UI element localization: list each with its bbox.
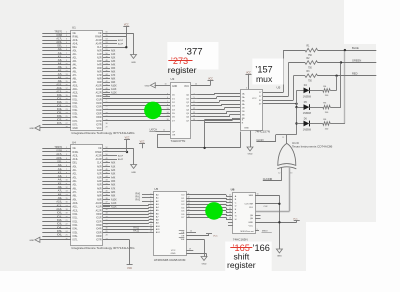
- svg-text:A6R: A6R: [97, 71, 102, 74]
- svg-text:10: 10: [150, 218, 152, 220]
- svg-text:12: 12: [229, 198, 231, 200]
- svg-text:A7L: A7L: [73, 74, 78, 77]
- svg-text:A8K: A8K: [111, 191, 116, 194]
- svg-text:9: 9: [193, 105, 194, 107]
- svg-text:GND: GND: [244, 128, 249, 130]
- svg-text:20: 20: [195, 83, 197, 85]
- svg-text:A9K: A9K: [111, 195, 116, 198]
- svg-text:IO5L: IO5L: [73, 114, 79, 116]
- svg-text:A12L: A12L: [73, 209, 79, 212]
- svg-text:U5: U5: [277, 86, 281, 90]
- svg-text:13: 13: [65, 191, 67, 193]
- svg-text:CE: CE: [73, 33, 77, 35]
- svg-text:A14R: A14R: [96, 158, 102, 161]
- svg-text:19: 19: [65, 95, 67, 97]
- svg-text:A12L: A12L: [56, 208, 62, 211]
- svg-text:11: 11: [66, 67, 68, 69]
- svg-text:A13R: A13R: [96, 154, 102, 157]
- svg-text:IO7R: IO7R: [96, 240, 102, 242]
- svg-text:24: 24: [65, 112, 67, 114]
- svg-text:17: 17: [166, 115, 168, 117]
- svg-text:8: 8: [150, 212, 151, 214]
- svg-text:14: 14: [65, 77, 67, 79]
- svg-text:GND: GND: [29, 128, 34, 130]
- svg-text:25: 25: [65, 235, 67, 237]
- svg-text:OE: OE: [172, 134, 176, 136]
- svg-text:A11K: A11K: [111, 88, 117, 91]
- svg-text:4: 4: [246, 87, 247, 89]
- svg-text:A2K: A2K: [111, 169, 116, 172]
- svg-text:VCC: VCC: [184, 86, 189, 88]
- svg-text:A5K: A5K: [111, 67, 116, 70]
- svg-text:16: 16: [193, 115, 195, 117]
- svg-text:A14L: A14L: [73, 43, 79, 46]
- svg-text:VCC: VCC: [125, 137, 130, 139]
- svg-text:A6R: A6R: [97, 187, 102, 190]
- svg-text:MISO: MISO: [262, 230, 268, 232]
- svg-text:GND: GND: [171, 253, 176, 255]
- svg-text:A10R: A10R: [96, 202, 102, 205]
- svg-text:A15P: A15P: [118, 39, 124, 42]
- svg-text:A7R: A7R: [97, 74, 102, 77]
- svg-text:2: 2: [193, 94, 194, 96]
- svg-text:IOSB: IOSB: [56, 150, 62, 153]
- svg-text:A2L: A2L: [73, 57, 78, 60]
- svg-text:R/WR: R/WR: [95, 152, 102, 154]
- svg-text:A7K: A7K: [111, 187, 116, 190]
- svg-text:RA1: RA1: [136, 195, 141, 198]
- svg-text:9: 9: [66, 60, 67, 62]
- svg-text:A5R: A5R: [97, 67, 102, 70]
- svg-text:CLK: CLK: [264, 206, 269, 208]
- svg-text:RA11: RA11: [133, 226, 139, 229]
- svg-text:IO3R: IO3R: [96, 225, 102, 227]
- svg-text:A5K: A5K: [111, 180, 116, 183]
- svg-text:A10L: A10L: [56, 83, 62, 86]
- svg-text:25: 25: [65, 116, 67, 118]
- svg-text:OE: OE: [181, 235, 185, 237]
- svg-text:IO4R: IO4R: [96, 229, 102, 231]
- svg-text:6: 6: [193, 101, 194, 103]
- svg-text:A11R: A11R: [96, 88, 102, 91]
- svg-text:CE: CE: [73, 148, 77, 150]
- svg-text:13: 13: [150, 228, 152, 230]
- svg-text:Texas Instruments CD74AC86: Texas Instruments CD74AC86: [292, 145, 333, 149]
- svg-text:15: 15: [65, 198, 67, 200]
- svg-text:GND: GND: [202, 264, 207, 266]
- svg-text:VCC: VCC: [252, 98, 257, 100]
- svg-text:A7K: A7K: [111, 74, 116, 77]
- svg-text:A16L: A16L: [56, 157, 62, 160]
- svg-text:A4L: A4L: [58, 179, 63, 182]
- svg-text:A8L: A8L: [58, 193, 63, 196]
- svg-text:8: 8: [66, 172, 67, 174]
- svg-text:A10K: A10K: [111, 85, 117, 88]
- svg-text:VCC: VCC: [213, 236, 218, 238]
- svg-text:A10K: A10K: [111, 198, 117, 201]
- svg-text:DEL: DEL: [73, 47, 78, 49]
- svg-text:R/WL: R/WL: [73, 37, 80, 39]
- svg-text:A2L: A2L: [58, 171, 63, 174]
- svg-text:IO6L: IO6L: [73, 117, 79, 119]
- svg-text:IO0L: IO0L: [73, 214, 79, 216]
- svg-text:A2K: A2K: [111, 57, 116, 60]
- svg-text:GND: GND: [248, 154, 253, 156]
- svg-text:29: 29: [105, 127, 107, 129]
- svg-text:A3L: A3L: [73, 176, 78, 179]
- svg-text:5: 5: [193, 97, 194, 99]
- svg-text:QH: QH: [250, 218, 254, 220]
- svg-text:IO0R: IO0R: [96, 96, 102, 98]
- svg-text:A5R: A5R: [97, 184, 102, 187]
- svg-text:1: 1: [66, 32, 67, 34]
- svg-text:A5L: A5L: [58, 182, 63, 185]
- svg-text:VCC: VCC: [140, 141, 145, 143]
- svg-text:IO1L: IO1L: [73, 100, 79, 102]
- svg-text:12: 12: [278, 173, 280, 175]
- svg-text:12: 12: [65, 70, 67, 72]
- svg-text:21: 21: [65, 102, 67, 104]
- svg-text:IO4L: IO4L: [73, 110, 79, 112]
- svg-text:A11R: A11R: [96, 206, 102, 209]
- svg-text:DEL: DEL: [57, 160, 62, 163]
- svg-text:A2L: A2L: [73, 173, 78, 176]
- svg-text:U6: U6: [231, 188, 235, 192]
- svg-text:18: 18: [166, 119, 168, 121]
- svg-text:16: 16: [229, 211, 231, 213]
- svg-text:12: 12: [65, 187, 67, 189]
- svg-text:17: 17: [65, 205, 67, 207]
- svg-text:A8R: A8R: [97, 195, 102, 198]
- svg-text:7: 7: [150, 209, 151, 211]
- svg-text:RA2: RA2: [136, 199, 141, 202]
- svg-text:WE: WE: [181, 239, 185, 241]
- svg-text:IO1R: IO1R: [96, 100, 102, 102]
- svg-text:A11L: A11L: [73, 88, 79, 91]
- svg-text:13: 13: [166, 108, 168, 110]
- svg-text:A9L: A9L: [73, 198, 78, 201]
- svg-text:15: 15: [193, 112, 195, 114]
- svg-text:A4R: A4R: [97, 180, 102, 183]
- svg-text:U4: U4: [72, 141, 76, 145]
- svg-text:A7L: A7L: [73, 191, 78, 194]
- svg-text:14: 14: [150, 231, 152, 233]
- svg-text:26: 26: [65, 238, 67, 240]
- svg-text:VCC: VCC: [127, 268, 132, 270]
- svg-text:13: 13: [290, 173, 292, 175]
- svg-text:GND: GND: [277, 256, 282, 258]
- svg-text:74HC165N: 74HC165N: [233, 237, 248, 241]
- svg-text:IO2R: IO2R: [96, 221, 102, 223]
- svg-text:A1R: A1R: [97, 53, 102, 56]
- svg-text:A2R: A2R: [97, 57, 102, 60]
- svg-text:A0K: A0K: [111, 162, 116, 165]
- svg-text:A10L: A10L: [56, 201, 62, 204]
- svg-text:A6L: A6L: [73, 187, 78, 190]
- svg-text:14: 14: [65, 194, 67, 196]
- svg-text:A0L: A0L: [58, 48, 63, 51]
- svg-text:A0L: A0L: [73, 50, 78, 53]
- svg-text:3: 3: [150, 196, 151, 198]
- svg-text:VCC: VCC: [171, 250, 176, 252]
- svg-text:14: 14: [166, 112, 168, 114]
- svg-text:10: 10: [164, 83, 166, 85]
- svg-text:GND: GND: [172, 86, 177, 88]
- svg-text:A12R: A12R: [96, 209, 102, 212]
- svg-text:19: 19: [193, 119, 195, 121]
- svg-text:15: 15: [229, 208, 231, 210]
- svg-text:17: 17: [65, 88, 67, 90]
- svg-text:VCC: VCC: [293, 218, 298, 220]
- svg-text:A8L: A8L: [73, 195, 78, 198]
- svg-text:A6K: A6K: [111, 184, 116, 187]
- svg-text:3: 3: [66, 154, 67, 156]
- svg-text:A13L: A13L: [73, 154, 79, 157]
- svg-text:mux: mux: [256, 74, 273, 84]
- svg-text:A7L: A7L: [58, 190, 63, 193]
- svg-text:18: 18: [229, 218, 231, 220]
- svg-text:28: 28: [65, 127, 67, 129]
- svg-text:A3R: A3R: [97, 176, 102, 179]
- svg-text:AT28C64B CRAB ROM: AT28C64B CRAB ROM: [154, 258, 186, 262]
- svg-text:18: 18: [65, 209, 67, 211]
- svg-text:A1K: A1K: [111, 53, 116, 56]
- svg-text:20: 20: [65, 216, 67, 218]
- svg-text:A0K: A0K: [111, 50, 116, 53]
- svg-text:1: 1: [66, 147, 67, 149]
- svg-text:IO6R: IO6R: [96, 236, 102, 238]
- svg-text:CLK INH: CLK INH: [244, 204, 253, 206]
- svg-text:A4K: A4K: [111, 64, 116, 67]
- svg-text:1N5908: 1N5908: [303, 130, 312, 132]
- svg-text:A3L: A3L: [73, 60, 78, 63]
- svg-text:CE: CE: [98, 148, 102, 150]
- svg-text:7: 7: [66, 53, 67, 55]
- svg-text:A2R: A2R: [97, 173, 102, 176]
- svg-text:9: 9: [150, 215, 151, 217]
- svg-text:4: 4: [66, 42, 67, 44]
- svg-text:74HC377N: 74HC377N: [171, 139, 186, 143]
- svg-text:A5L: A5L: [73, 184, 78, 187]
- svg-text:’157: ’157: [255, 64, 272, 74]
- svg-text:RED: RED: [352, 72, 358, 76]
- svg-text:IO5R: IO5R: [96, 114, 102, 116]
- svg-text:30: 30: [105, 227, 107, 229]
- svg-text:A9L: A9L: [58, 197, 63, 200]
- svg-text:Integrated Device Technology: Integrated Device Technology IDT7134LA20…: [72, 246, 136, 250]
- svg-text:A9L: A9L: [73, 81, 78, 84]
- svg-text:11: 11: [282, 137, 284, 139]
- svg-text:VCC: VCC: [208, 79, 213, 81]
- svg-text:GND: GND: [131, 62, 136, 64]
- svg-text:GND: GND: [145, 85, 150, 87]
- svg-text:11: 11: [150, 221, 152, 223]
- svg-text:A0L: A0L: [58, 164, 63, 167]
- svg-text:IO4L: IO4L: [57, 226, 63, 229]
- svg-text:A12L: A12L: [73, 92, 79, 95]
- svg-text:22: 22: [65, 224, 67, 226]
- svg-text:IO1L: IO1L: [57, 215, 63, 218]
- svg-text:A11K: A11K: [111, 202, 117, 205]
- svg-text:IO7L: IO7L: [57, 122, 63, 125]
- svg-text:GND: GND: [248, 222, 253, 224]
- svg-text:16: 16: [65, 202, 67, 204]
- svg-text:A5L: A5L: [73, 67, 78, 70]
- svg-text:SER: SER: [249, 195, 254, 197]
- svg-text:A1L: A1L: [73, 53, 78, 56]
- svg-text:IO1L: IO1L: [73, 218, 79, 220]
- svg-text:IO6R: IO6R: [96, 117, 102, 119]
- svg-text:20: 20: [190, 231, 192, 233]
- svg-text:29: 29: [189, 249, 191, 251]
- svg-text:GND: GND: [73, 128, 78, 130]
- svg-text:IO3R: IO3R: [96, 107, 102, 109]
- svg-text:5: 5: [150, 203, 151, 205]
- svg-text:A1L: A1L: [73, 169, 78, 172]
- svg-text:RA0: RA0: [136, 192, 141, 195]
- svg-text:IO2L: IO2L: [73, 103, 79, 105]
- svg-text:IO7R: IO7R: [96, 121, 102, 123]
- svg-text:9: 9: [66, 176, 67, 178]
- svg-text:A9K: A9K: [111, 81, 116, 84]
- svg-text:11: 11: [229, 195, 231, 197]
- svg-text:CE: CE: [181, 232, 185, 234]
- svg-text:15: 15: [65, 81, 67, 83]
- svg-text:10: 10: [256, 194, 258, 196]
- svg-text:31: 31: [105, 224, 107, 226]
- svg-text:IO2L: IO2L: [73, 221, 79, 223]
- svg-text:A6K: A6K: [111, 71, 116, 74]
- svg-text:IO7L: IO7L: [73, 240, 79, 242]
- svg-text:CLKDIR: CLKDIR: [263, 177, 273, 181]
- svg-text:QH: QH: [250, 215, 254, 217]
- svg-text:A10L: A10L: [73, 85, 79, 88]
- svg-text:A4R: A4R: [97, 64, 102, 67]
- svg-text:18: 18: [65, 91, 67, 93]
- svg-text:1N5908: 1N5908: [303, 113, 312, 115]
- svg-text:A0L: A0L: [73, 165, 78, 168]
- svg-text:16: 16: [65, 84, 67, 86]
- svg-text:5: 5: [66, 161, 67, 163]
- svg-text:A8R: A8R: [97, 78, 102, 81]
- svg-text:IO2R: IO2R: [96, 103, 102, 105]
- svg-text:1: 1: [256, 229, 257, 231]
- svg-text:A15P: A15P: [118, 154, 124, 157]
- svg-text:12: 12: [193, 108, 195, 110]
- svg-text:10: 10: [65, 63, 67, 65]
- svg-text:5: 5: [66, 46, 67, 48]
- svg-text:VCC: VCC: [124, 24, 129, 26]
- svg-text:IO7R: IO7R: [96, 124, 102, 126]
- svg-text:VCC: VCC: [97, 128, 102, 130]
- svg-text:2: 2: [150, 193, 151, 195]
- svg-text:A8L: A8L: [73, 78, 78, 81]
- svg-text:A0R: A0R: [97, 165, 102, 168]
- svg-text:A13L: A13L: [73, 39, 79, 42]
- svg-text:2: 2: [66, 151, 67, 153]
- svg-text:A3K: A3K: [111, 60, 116, 63]
- svg-text:IO6L: IO6L: [57, 234, 63, 237]
- svg-text:IO6L: IO6L: [73, 236, 79, 238]
- svg-text:G: G: [235, 216, 237, 218]
- svg-text:6: 6: [150, 206, 151, 208]
- svg-text:10: 10: [65, 180, 67, 182]
- svg-text:IO3L: IO3L: [73, 225, 79, 227]
- svg-text:26: 26: [65, 120, 67, 122]
- svg-text:GND: GND: [29, 240, 34, 242]
- svg-text:24: 24: [65, 231, 67, 233]
- svg-text:CLK: CLK: [249, 207, 254, 209]
- svg-text:VCC: VCC: [248, 225, 253, 227]
- svg-text:35: 35: [105, 209, 107, 211]
- svg-text:23: 23: [65, 109, 67, 111]
- svg-text:A0R: A0R: [97, 50, 102, 53]
- svg-text:2: 2: [66, 35, 67, 37]
- svg-text:DEL: DEL: [73, 163, 78, 165]
- svg-text:register: register: [168, 65, 197, 75]
- svg-text:IO6L: IO6L: [57, 115, 63, 118]
- svg-text:A1R: A1R: [97, 169, 102, 172]
- svg-text:A13R: A13R: [96, 39, 102, 42]
- svg-text:A11L: A11L: [73, 206, 79, 209]
- svg-text:A4L: A4L: [73, 64, 78, 67]
- svg-text:6: 6: [66, 49, 67, 51]
- svg-text:A3K: A3K: [111, 173, 116, 176]
- svg-text:TRST0: TRST0: [54, 146, 62, 149]
- svg-text:A9R: A9R: [97, 81, 102, 84]
- svg-text:A10R: A10R: [96, 85, 102, 88]
- svg-text:VCC: VCC: [246, 72, 251, 74]
- svg-text:Integrated Device Technology: Integrated Device Technology IDT7134LA20…: [72, 131, 136, 135]
- svg-text:7: 7: [167, 101, 168, 103]
- svg-text:22: 22: [65, 105, 67, 107]
- svg-text:11: 11: [163, 130, 165, 132]
- svg-text:4: 4: [167, 97, 168, 99]
- svg-text:IO3L: IO3L: [73, 107, 79, 109]
- svg-text:IO0L: IO0L: [73, 96, 79, 98]
- svg-text:IO0R: IO0R: [96, 214, 102, 216]
- svg-text:3: 3: [66, 39, 67, 41]
- svg-text:IO4R: IO4R: [96, 110, 102, 112]
- svg-text:12: 12: [150, 225, 152, 227]
- svg-text:A3L: A3L: [58, 175, 63, 178]
- svg-text:IO4L: IO4L: [73, 229, 79, 231]
- svg-text:27: 27: [65, 123, 67, 125]
- svg-text:U3: U3: [171, 77, 175, 81]
- svg-text:4: 4: [150, 200, 151, 202]
- svg-text:IO5L: IO5L: [57, 230, 63, 233]
- svg-text:CE: CE: [98, 33, 102, 35]
- svg-text:1N5908: 1N5908: [303, 96, 312, 98]
- svg-text:CLK: CLK: [97, 47, 102, 49]
- svg-text:IO5L: IO5L: [73, 232, 79, 234]
- svg-text:A6L: A6L: [58, 186, 63, 189]
- svg-text:28: 28: [105, 235, 107, 237]
- svg-text:IO2L: IO2L: [57, 219, 63, 222]
- svg-text:A6L: A6L: [73, 71, 78, 74]
- svg-text:register: register: [227, 260, 256, 270]
- svg-text:11: 11: [66, 183, 68, 185]
- svg-text:30: 30: [105, 123, 107, 125]
- svg-text:A14L: A14L: [73, 158, 79, 161]
- svg-text:IO3L: IO3L: [57, 223, 63, 226]
- svg-text:21: 21: [65, 220, 67, 222]
- svg-text:IO1R: IO1R: [96, 218, 102, 220]
- svg-text:7: 7: [66, 169, 67, 171]
- svg-text:20: 20: [65, 98, 67, 100]
- svg-text:A14R: A14R: [96, 43, 102, 46]
- svg-text:BLUE: BLUE: [352, 46, 359, 50]
